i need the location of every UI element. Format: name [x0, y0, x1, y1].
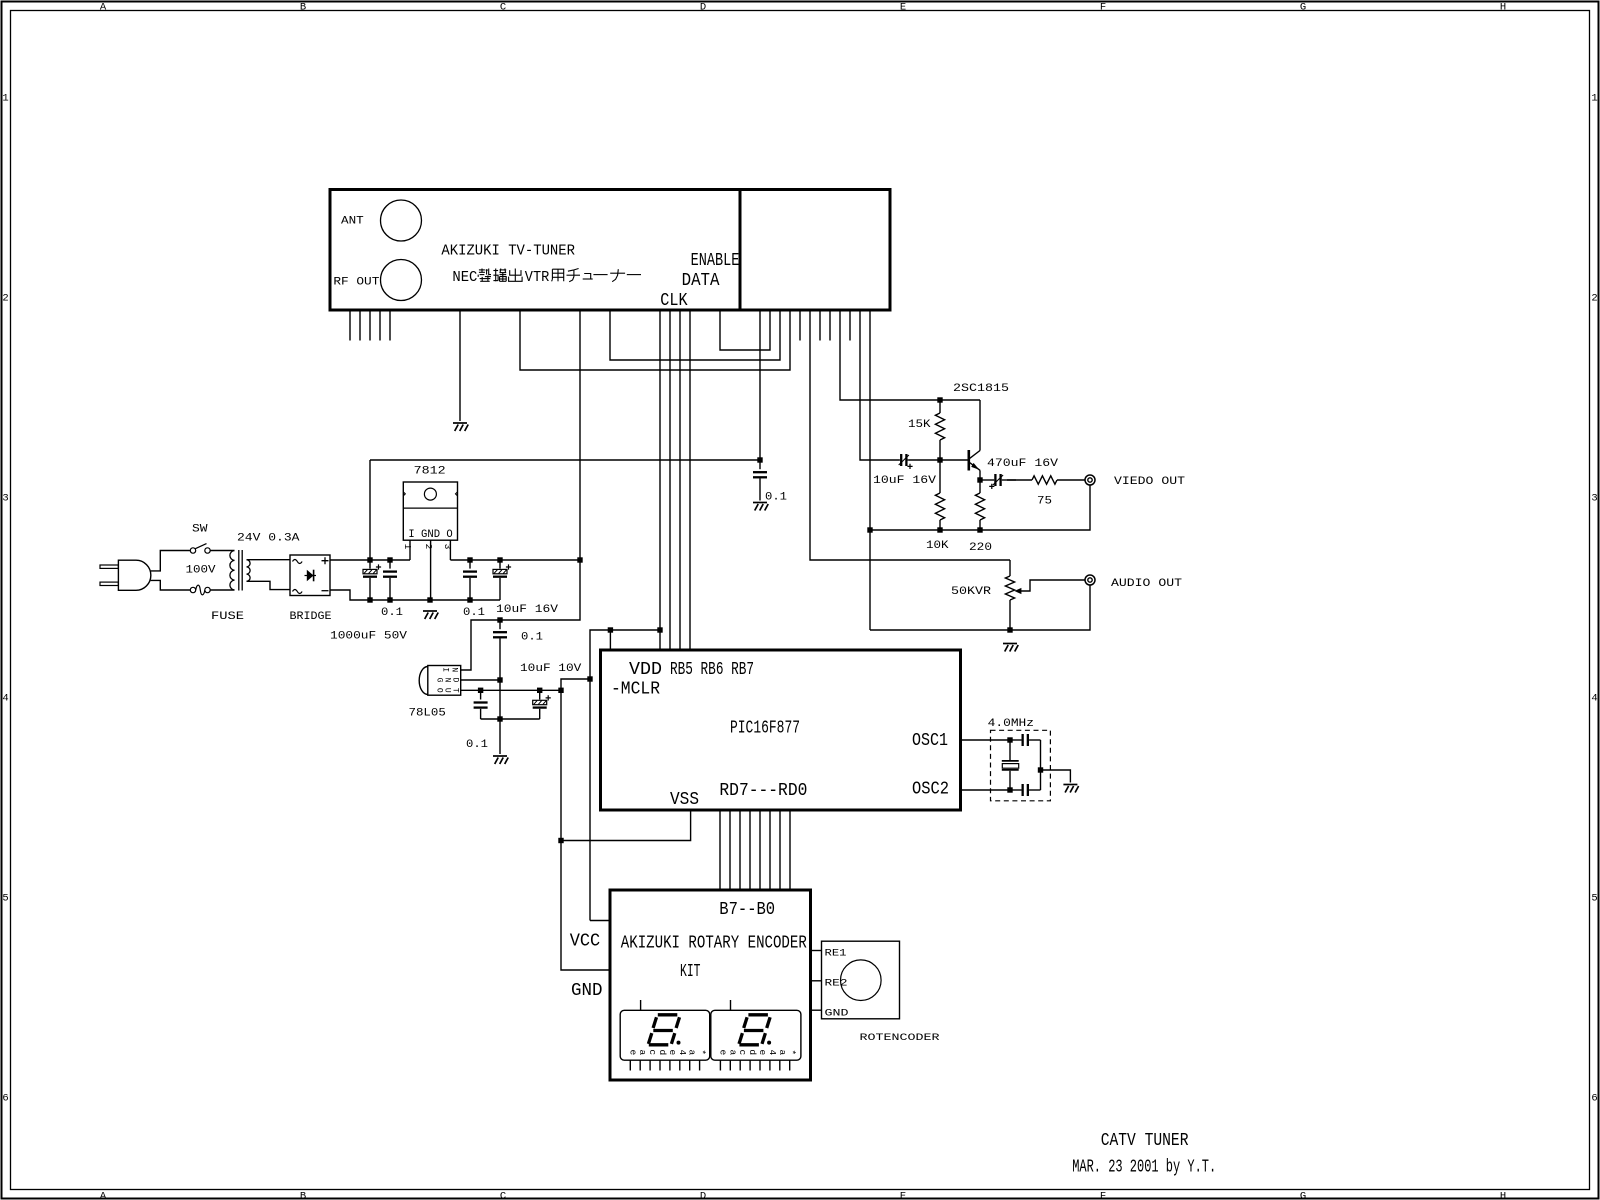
display1 pin stub 3: [659, 1060, 661, 1070]
kanji YU (transport): [493, 269, 506, 282]
svg-text:e: e: [627, 1049, 638, 1055]
ground symbol audio: [1003, 644, 1018, 652]
fuse contact right: [205, 587, 210, 592]
svg-text:B7--B0: B7--B0: [719, 899, 775, 920]
svg-text:10uF 16V: 10uF 16V: [873, 475, 936, 487]
svg-text:0.1: 0.1: [466, 739, 488, 751]
svg-text:4: 4: [2, 693, 8, 705]
svg-text:50KVR: 50KVR: [951, 586, 991, 598]
7-segment display digit 1 anode tick: [640, 1000, 642, 1010]
tuner right section pin stub x=820: [819, 310, 821, 341]
wire tuner pin 760 to +24V node: [759, 310, 761, 460]
transformer T1 core: [239, 550, 242, 591]
ground below tuner pin 760 bypass: [753, 503, 768, 511]
bridge AC mark bottom: [293, 590, 303, 594]
svg-text:24V 0.3A: 24V 0.3A: [237, 533, 300, 545]
tuner module internal divider: [739, 190, 742, 311]
resistor 10K bottom lead: [939, 520, 941, 530]
wire osc ground: [1041, 770, 1071, 783]
resistor 15K: [935, 413, 944, 440]
svg-text:F: F: [1100, 1191, 1106, 1200]
svg-text:a: a: [727, 1049, 738, 1055]
wire 78L05 output +5V rail: [461, 689, 561, 691]
junction +12V input bypass: [497, 617, 502, 622]
kanji YOU (use): [552, 269, 564, 281]
wire RD bus line 3: [759, 810, 761, 890]
svg-text:2: 2: [423, 544, 434, 550]
svg-text:1: 1: [402, 544, 413, 550]
resistor 15K top lead: [939, 400, 941, 413]
junction 15K top: [937, 397, 942, 402]
svg-text:C: C: [500, 1191, 506, 1200]
resistor 15K bottom lead: [939, 440, 941, 460]
tuner ANT connector circle: [381, 200, 422, 241]
svg-text:MAR. 23 2001 by Y.T.: MAR. 23 2001 by Y.T.: [1072, 1157, 1216, 1178]
junction emitter output node: [977, 477, 982, 482]
svg-text:4.0MHz: 4.0MHz: [988, 718, 1034, 730]
svg-text:1: 1: [1591, 93, 1597, 105]
svg-text:2SC1815: 2SC1815: [953, 383, 1009, 395]
svg-text:6: 6: [1591, 1093, 1597, 1105]
tuner right section pin stub x=800: [799, 310, 801, 341]
capacitor 0.1 (12V rail): [469, 560, 471, 569]
junction 0V at 0.1 (12V side): [467, 597, 472, 602]
capacitor 0.1 at tuner pin 760: [759, 461, 761, 470]
switch SW contact right: [205, 548, 210, 553]
junction 78L05 gnd on ground line: [497, 677, 502, 682]
resistor 220 bottom lead: [979, 520, 981, 530]
svg-text:GND: GND: [571, 980, 603, 1001]
wire 78L05 ground pin: [461, 679, 500, 681]
svg-text:ANT: ANT: [341, 216, 364, 228]
wire video return: [870, 485, 1090, 530]
svg-text:NEC: NEC: [452, 269, 477, 286]
resistor 75 left lead: [1007, 479, 1032, 481]
tuner right section pin stub x=850: [849, 310, 851, 341]
svg-text:7812: 7812: [414, 466, 446, 478]
kana CHI: [567, 269, 581, 282]
junction video gnd bus left: [867, 527, 872, 532]
svg-text:DATA: DATA: [682, 270, 721, 291]
wire tuner pin 580 (+12V feed): [579, 310, 581, 560]
svg-text:T: T: [451, 688, 460, 693]
potentiometer 50KVR element: [1005, 576, 1014, 600]
svg-text:-MCLR: -MCLR: [611, 679, 660, 700]
svg-text:5: 5: [2, 893, 8, 905]
svg-text:CLK: CLK: [660, 290, 688, 311]
junction osc ground node: [1038, 767, 1043, 772]
kanji SHUTSU (out): [509, 269, 522, 282]
wire RE1: [811, 950, 822, 952]
bridge rectifier box: [290, 555, 330, 596]
display2 pin stub 2: [739, 1060, 741, 1070]
capacitor 1000uF 50V: [369, 560, 371, 569]
junction 0V at 0.1: [387, 597, 392, 602]
display1 pin stub 7: [699, 1060, 701, 1070]
regulator 78L05 body: [428, 666, 461, 696]
svg-text:ENABLE: ENABLE: [691, 250, 740, 271]
wire bridge - output to 0V rail: [330, 590, 500, 600]
wire OSC2: [961, 789, 1011, 791]
wire RD bus line 1: [779, 810, 781, 890]
wire digital ground line: [561, 690, 610, 970]
svg-text:B: B: [300, 1191, 306, 1200]
svg-text:a: a: [637, 1049, 648, 1055]
svg-text:GND: GND: [825, 1009, 849, 1020]
wire tuner RB7 line x=690: [689, 310, 691, 650]
connector AUDIO OUT: [1085, 575, 1095, 585]
svg-text:2: 2: [1591, 293, 1597, 305]
svg-text:E: E: [900, 1191, 906, 1200]
display2 pin stub 5: [769, 1060, 771, 1070]
svg-text:N: N: [450, 667, 459, 672]
svg-text:e: e: [667, 1049, 678, 1055]
transistor Q1 base wire: [940, 459, 969, 461]
svg-text:d: d: [747, 1049, 758, 1055]
svg-text:e: e: [757, 1049, 768, 1055]
AC plug body: [118, 560, 150, 590]
junction tuner pin 760 bypass: [757, 457, 762, 462]
svg-text:BRIDGE: BRIDGE: [290, 611, 332, 623]
ground symbol oscillator: [1063, 785, 1078, 793]
svg-text:A: A: [100, 1, 107, 13]
resistor 75: [1032, 476, 1057, 484]
AC plug prong top: [100, 565, 118, 568]
wire 7812 pin3 +12V: [449, 540, 451, 560]
svg-text:U: U: [443, 688, 452, 693]
crystal X1: [1002, 761, 1019, 770]
junction +5V at 0.1: [478, 688, 483, 693]
regulator 7812 body: [403, 482, 457, 540]
tuner pin stub x=360: [359, 310, 361, 341]
AC plug prong bottom: [100, 582, 118, 585]
wire collector supply corner: [979, 400, 981, 451]
wire tuner RB6 line x=680: [679, 310, 681, 650]
display2 pin stub 0: [719, 1060, 721, 1070]
wire RD bus line 0: [789, 810, 791, 890]
svg-text:VIEDO OUT: VIEDO OUT: [1114, 476, 1185, 488]
svg-text:*: *: [787, 1049, 798, 1055]
resistor 220 top lead: [979, 480, 981, 493]
connector VIDEO OUT: [1085, 475, 1095, 485]
7-segment digit 1 segments: [658, 1013, 678, 1016]
svg-text:B: B: [300, 1, 306, 13]
potentiometer wiper arrow: [1014, 588, 1021, 594]
wire fuse to transformer: [210, 589, 234, 591]
wire tuner RB5 line x=670: [669, 310, 671, 650]
svg-text:RB5 RB6 RB7: RB5 RB6 RB7: [670, 659, 754, 680]
wire RD bus line 5: [739, 810, 741, 890]
pot bottom lead: [1009, 600, 1011, 630]
ground symbol power supply: [423, 611, 438, 619]
junction OSC1 node: [1007, 737, 1012, 742]
crystal circuit dashed box: [991, 730, 1051, 801]
wire bridge + output to 7812 input: [330, 559, 410, 561]
display1 pin stub 5: [679, 1060, 681, 1070]
svg-text:ROTENCODER: ROTENCODER: [860, 1033, 940, 1044]
svg-text:6: 6: [2, 1093, 8, 1105]
svg-text:e: e: [717, 1049, 728, 1055]
capacitor 470uF 16V: [980, 479, 994, 481]
wire output bypass ground bus: [481, 718, 540, 720]
svg-text:OSC2: OSC2: [912, 779, 949, 800]
capacitor 10uF 16V base coupling: [898, 459, 901, 461]
capacitor 10uF 10V: [539, 691, 541, 700]
junction audio gnd at pot: [1007, 627, 1012, 632]
display1 pin stub 6: [689, 1060, 691, 1070]
wire plug top lead: [151, 551, 191, 571]
kanji SEI (made): [478, 269, 491, 282]
wire VCC to encoder: [590, 920, 610, 922]
wire OSC1: [961, 739, 1011, 741]
wire RD bus line 4: [749, 810, 751, 890]
rotary encoder shaft circle: [841, 960, 882, 1001]
ground symbol 78L05 area: [493, 756, 508, 764]
fuse contact left: [190, 587, 195, 592]
display1 pin stub 4: [669, 1060, 671, 1070]
junction +12V at tuner feed: [577, 557, 582, 562]
tuner RF OUT connector circle: [381, 260, 422, 301]
wire tuner pin 520 to pin 790: [520, 310, 790, 370]
junction base node: [937, 457, 942, 462]
fuse element: [196, 585, 205, 595]
svg-text:G: G: [1300, 1, 1306, 13]
wire crystal bottom lead: [1009, 771, 1011, 790]
bridge minus mark: [322, 590, 329, 592]
wire plug bottom lead: [151, 580, 191, 590]
svg-text:RE2: RE2: [825, 979, 848, 990]
junction VSS tap: [558, 838, 563, 843]
wire RD bus line 6: [729, 810, 731, 890]
bridge diode symbol: [305, 575, 317, 577]
svg-text:SW: SW: [192, 524, 208, 536]
wire +24V riser x=370: [369, 460, 371, 560]
svg-text:AKIZUKI TV-TUNER: AKIZUKI TV-TUNER: [441, 243, 575, 260]
svg-text:5: 5: [1591, 893, 1597, 905]
svg-text:2: 2: [2, 293, 8, 305]
svg-text:AUDIO OUT: AUDIO OUT: [1111, 578, 1182, 590]
svg-text:3: 3: [442, 544, 453, 550]
pot top lead: [1009, 560, 1011, 576]
junction +12V at 0.1: [467, 557, 472, 562]
svg-text:E: E: [900, 1, 906, 13]
wire tuner pin 660 (+5V) down to VDD bus: [659, 310, 661, 650]
capacitor osc C1: [1010, 739, 1021, 741]
svg-text:FUSE: FUSE: [211, 611, 244, 623]
wire tuner pin 810 audio feed: [810, 310, 1010, 560]
7-segment display digit 2 body: [711, 1010, 801, 1060]
svg-text:H: H: [1500, 1, 1506, 13]
wire secondary top to bridge: [247, 559, 291, 561]
wire osc caps right side: [1040, 740, 1042, 790]
svg-text:3: 3: [2, 493, 8, 505]
junction video gnd at 220: [977, 527, 982, 532]
tuner right section pin stub x=830: [829, 310, 831, 341]
transistor Q1 collector: [970, 451, 980, 459]
svg-text:C: C: [500, 1, 506, 13]
wire +12V rail: [450, 559, 580, 561]
display1 pin stub 1: [639, 1060, 641, 1070]
wire RD bus line 2: [769, 810, 771, 890]
svg-text:I: I: [441, 667, 450, 672]
wire 78L05 input bypass to ground line: [499, 659, 501, 754]
svg-text:G: G: [435, 678, 444, 683]
junction 0V at ground: [427, 597, 432, 602]
svg-text:10uF 16V: 10uF 16V: [496, 604, 558, 616]
svg-text:I GND O: I GND O: [408, 529, 453, 541]
resistor 220: [975, 493, 984, 520]
svg-text:0.1: 0.1: [463, 607, 485, 619]
resistor 10K top lead: [939, 460, 941, 493]
svg-text:H: H: [1500, 1191, 1506, 1200]
svg-text:RF OUT: RF OUT: [333, 276, 379, 288]
junction OSC2 node: [1007, 787, 1012, 792]
wire tuner pin 840 video amp supply: [840, 310, 980, 400]
svg-text:VTR: VTR: [525, 269, 550, 286]
resistor 75 right lead: [1057, 479, 1085, 481]
kana NA: [610, 269, 625, 282]
bridge plus mark: [322, 557, 329, 564]
svg-text:D: D: [700, 1, 706, 13]
svg-text:78L05: 78L05: [409, 708, 446, 720]
wire tuner pin 860 video signal: [860, 310, 899, 460]
transistor Q1 emitter: [970, 463, 980, 471]
microcontroller PIC16F877 box: [601, 650, 961, 810]
svg-text:a: a: [687, 1049, 698, 1055]
wire pot wiper to audio out: [1021, 580, 1085, 591]
transformer T1 primary winding: [230, 551, 235, 591]
svg-text:0.1: 0.1: [521, 632, 543, 644]
svg-text:1000uF 50V: 1000uF 50V: [330, 631, 407, 643]
svg-text:0.1: 0.1: [765, 492, 787, 504]
wire RE2: [811, 980, 822, 982]
svg-text:VDD: VDD: [629, 659, 662, 680]
wire RD bus line 7: [719, 810, 721, 890]
wire crystal top lead: [1009, 740, 1011, 760]
tuner pin stub x=390: [389, 310, 391, 341]
svg-text:c: c: [647, 1049, 658, 1055]
wire tuner pin 610 to pin 780: [610, 310, 780, 360]
wire audio return: [870, 585, 1090, 630]
capacitor 10uF 16V: [499, 560, 501, 569]
wire 7812 pin1: [409, 540, 411, 560]
svg-text:PIC16F877: PIC16F877: [730, 718, 800, 739]
kana long bar 2: [627, 274, 641, 276]
junction +12V at 10uF: [497, 557, 502, 562]
regulator 7812 mounting hole: [424, 488, 436, 500]
svg-text:470uF 16V: 470uF 16V: [987, 458, 1058, 470]
svg-text:4: 4: [1591, 693, 1597, 705]
wire VSS pin: [561, 810, 691, 841]
svg-text:RD7---RD0: RD7---RD0: [719, 780, 807, 801]
svg-text:N: N: [443, 678, 452, 683]
junction bypass bus on ground line: [497, 716, 502, 721]
wire encoder GND: [811, 1009, 822, 1011]
transformer T1 secondary winding: [247, 560, 251, 582]
svg-text:10K: 10K: [926, 540, 949, 552]
junction 0V at 1000uF: [367, 597, 372, 602]
bridge AC mark top: [293, 560, 303, 564]
svg-text:15K: 15K: [908, 419, 931, 431]
capacitor osc C2: [1010, 789, 1021, 791]
transistor Q1 base bar: [967, 450, 970, 471]
svg-text:CATV TUNER: CATV TUNER: [1101, 1130, 1189, 1151]
junction +24V at 0.1: [387, 557, 392, 562]
kana small YU: [583, 274, 593, 280]
svg-text:RE1: RE1: [825, 948, 847, 959]
display2 pin stub 1: [729, 1060, 731, 1070]
svg-text:4: 4: [767, 1049, 778, 1055]
display1 pin stub 2: [649, 1060, 651, 1070]
display1 pin stub 0: [629, 1060, 631, 1070]
svg-text:1: 1: [2, 93, 8, 105]
svg-text:AKIZUKI ROTARY ENCODER: AKIZUKI ROTARY ENCODER: [621, 933, 807, 954]
7-segment display digit 2 anode tick: [730, 1000, 732, 1010]
svg-text:VCC: VCC: [570, 931, 601, 952]
rotary encoder ROTENCODER box: [822, 941, 900, 1019]
tuner pin stub x=350: [349, 310, 351, 341]
wire +5V riser to VDD bus and VCC: [590, 630, 660, 921]
capacitor 0.1 (24V rail): [389, 560, 391, 569]
tuner pin stub x=380: [379, 310, 381, 341]
svg-text:KIT: KIT: [680, 961, 701, 982]
wire base cap to base node: [908, 459, 940, 461]
junction +5V riser: [587, 676, 592, 681]
svg-text:4: 4: [677, 1049, 688, 1055]
wire tuner pin 870 video ground: [869, 310, 871, 630]
switch SW lever: [195, 544, 206, 549]
svg-text:100V: 100V: [186, 565, 216, 577]
display2 pin stub 4: [759, 1060, 761, 1070]
wire secondary bottom to bridge: [247, 581, 291, 589]
svg-text:*: *: [697, 1049, 708, 1055]
svg-text:O: O: [435, 688, 444, 693]
svg-text:220: 220: [969, 542, 992, 554]
junction +5V at 10uF: [537, 688, 542, 693]
wire emitter to output node: [979, 470, 981, 480]
wire tuner pin 460 to ground: [459, 310, 461, 421]
svg-text:0.1: 0.1: [381, 607, 403, 619]
wire +5V up to VDD riser: [561, 679, 590, 690]
switch SW contact left: [190, 548, 195, 553]
svg-text:F: F: [1100, 1, 1106, 13]
display2 pin stub 3: [749, 1060, 751, 1070]
wire +12V down to 78L05 input: [461, 560, 580, 670]
7-segment digit 2 segments: [748, 1013, 768, 1016]
transistor Q1 emitter arrow: [971, 463, 979, 470]
junction video gnd at 10K: [937, 527, 942, 532]
svg-text:a: a: [777, 1049, 788, 1055]
svg-text:d: d: [657, 1049, 668, 1055]
svg-text:10uF 10V: 10uF 10V: [520, 663, 582, 675]
display2 pin stub 6: [779, 1060, 781, 1070]
svg-text:3: 3: [1591, 493, 1597, 505]
junction +5V corner: [558, 688, 563, 693]
tuner pin stub x=370: [369, 310, 371, 341]
ground symbol below tuner pin 460: [453, 423, 468, 431]
svg-text:D: D: [451, 678, 460, 683]
svg-text:D: D: [700, 1191, 706, 1200]
junction VDD: [657, 627, 662, 632]
wire switch to transformer: [210, 550, 234, 552]
svg-text:c: c: [737, 1049, 748, 1055]
junction +24V at 1000uF: [367, 557, 372, 562]
svg-text:75: 75: [1037, 496, 1052, 508]
resistor 10K: [935, 493, 944, 520]
svg-text:VSS: VSS: [670, 789, 699, 810]
svg-text:G: G: [1300, 1191, 1306, 1200]
capacitor 0.1 at 78L05 input: [499, 621, 501, 630]
